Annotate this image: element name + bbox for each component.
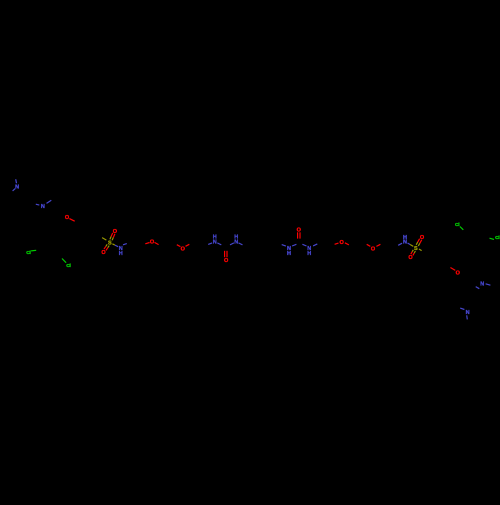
- svg-text:O: O: [340, 240, 345, 246]
- svg-text:N: N: [213, 240, 217, 246]
- svg-text:N: N: [403, 239, 407, 245]
- svg-text:O: O: [297, 228, 302, 234]
- svg-text:O: O: [150, 239, 155, 245]
- svg-text:H: H: [287, 251, 291, 257]
- svg-text:O: O: [224, 258, 229, 264]
- svg-text:S: S: [414, 246, 418, 252]
- svg-text:Cl: Cl: [495, 235, 500, 241]
- svg-text:S: S: [108, 240, 112, 246]
- svg-text:O: O: [65, 215, 70, 221]
- svg-text:O: O: [101, 250, 106, 256]
- svg-text:O: O: [456, 271, 461, 277]
- svg-text:H: H: [307, 251, 311, 257]
- svg-text:O: O: [371, 246, 376, 252]
- svg-text:N: N: [466, 310, 470, 316]
- svg-text:H: H: [119, 251, 123, 257]
- svg-text:N: N: [15, 185, 19, 191]
- svg-text:O: O: [113, 229, 118, 235]
- svg-text:N: N: [480, 281, 484, 287]
- svg-text:O: O: [420, 235, 425, 241]
- svg-text:N: N: [234, 240, 238, 246]
- svg-text:O: O: [181, 246, 186, 252]
- svg-text:N: N: [41, 204, 45, 210]
- svg-text:O: O: [408, 255, 413, 261]
